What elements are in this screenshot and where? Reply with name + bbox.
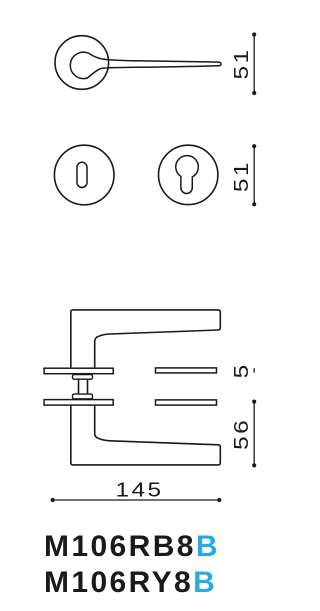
svg-text:5: 5 (230, 362, 252, 378)
svg-text:51: 51 (230, 160, 252, 192)
svg-text:145: 145 (116, 479, 164, 501)
svg-text:56: 56 (230, 418, 252, 450)
svg-text:51: 51 (230, 47, 252, 79)
